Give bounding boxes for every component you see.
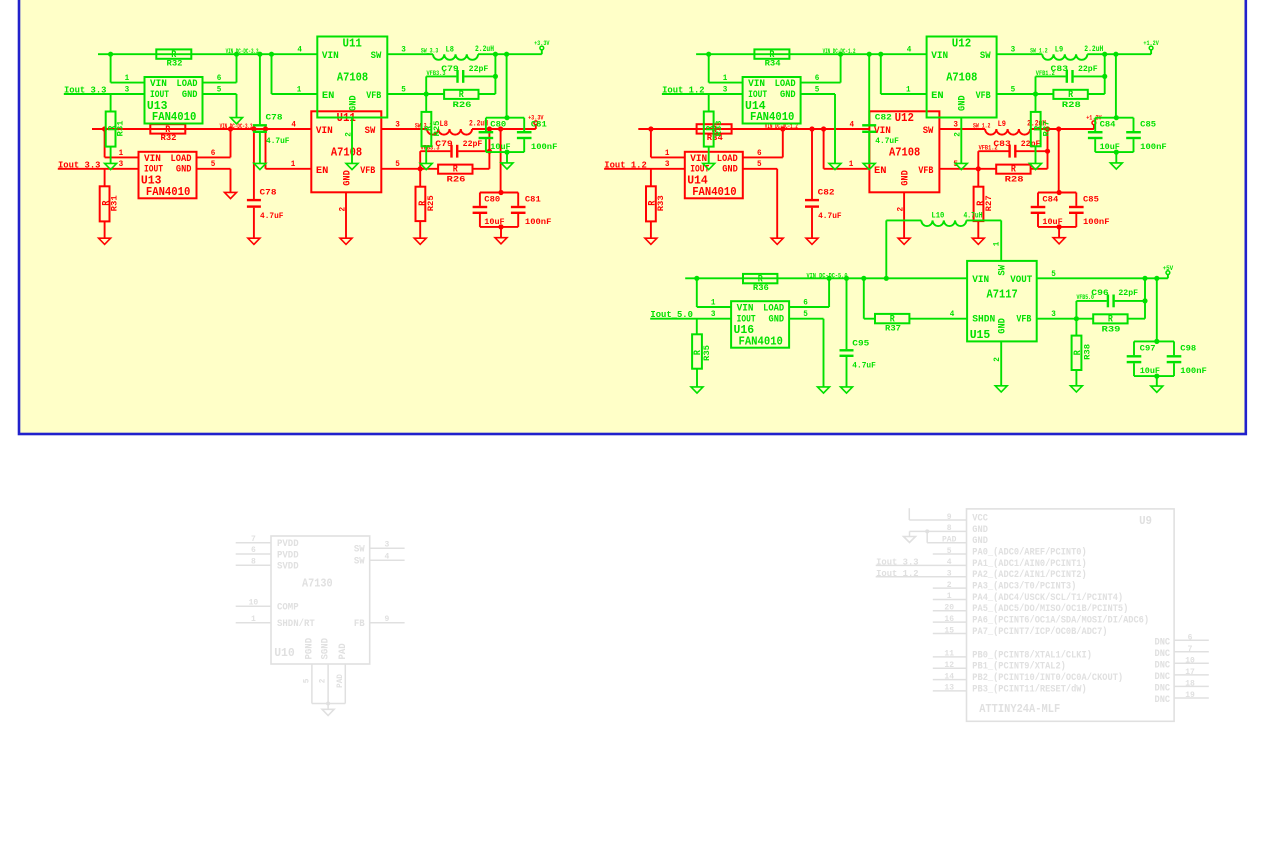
svg-text:3: 3 [1011,46,1016,55]
svg-text:PGND: PGND [305,638,316,660]
svg-text:Iout_3.3: Iout_3.3 [876,556,919,567]
svg-text:GND: GND [769,314,785,325]
svg-text:1: 1 [723,74,728,83]
svg-text:PA2_(ADC2/AIN1/PCINT2): PA2_(ADC2/AIN1/PCINT2) [972,569,1086,581]
svg-text:A7108: A7108 [331,146,362,159]
svg-text:L10: L10 [931,210,944,220]
svg-text:PA1_(ADC1/AIN0/PCINT1): PA1_(ADC1/AIN0/PCINT1) [972,558,1086,570]
svg-text:VCC: VCC [972,513,988,524]
svg-text:5: 5 [947,547,952,556]
svg-text:C98: C98 [1180,344,1196,354]
svg-text:R34: R34 [765,58,781,68]
svg-text:SW: SW [997,265,1008,276]
svg-text:R39: R39 [1102,324,1121,334]
svg-text:EN: EN [316,166,329,177]
svg-text:VFB3.3: VFB3.3 [427,70,446,77]
svg-text:5: 5 [302,679,311,684]
svg-text:PAD: PAD [942,536,957,545]
svg-text:3: 3 [119,160,124,169]
svg-text:C78: C78 [266,113,283,123]
svg-text:GND: GND [182,90,198,101]
svg-text:R38: R38 [1083,344,1093,360]
svg-text:PB2_(PCINT10/INT0/OC0A/CKOUT): PB2_(PCINT10/INT0/OC0A/CKOUT) [972,672,1123,684]
svg-text:C85: C85 [1083,194,1099,204]
svg-text:Iout_3.3: Iout_3.3 [58,159,101,170]
svg-text:VIN_DC-DC-3.3: VIN_DC-DC-3.3 [226,48,259,55]
svg-text:11: 11 [944,650,954,659]
svg-text:4: 4 [907,46,912,55]
svg-text:FAN4010: FAN4010 [692,186,736,199]
svg-text:R28: R28 [1062,100,1081,110]
svg-text:PA0_(ADC0/AREF/PCINT0): PA0_(ADC0/AREF/PCINT0) [972,546,1086,558]
svg-text:EN: EN [931,91,944,102]
svg-text:2: 2 [344,132,353,137]
svg-text:GND: GND [997,318,1008,334]
svg-text:4.7uF: 4.7uF [266,136,290,146]
svg-text:10uF: 10uF [1042,217,1062,227]
svg-text:VIN: VIN [316,126,333,137]
svg-text:5: 5 [1011,85,1016,94]
svg-text:R36: R36 [753,283,769,293]
svg-text:SW: SW [354,545,365,556]
svg-text:3: 3 [125,85,130,94]
svg-text:4: 4 [291,120,296,129]
svg-text:5: 5 [211,160,216,169]
svg-text:PA4_(ADC4/USCK/SCL/T1/PCINT4): PA4_(ADC4/USCK/SCL/T1/PCINT4) [972,592,1123,604]
svg-text:Iout_5.0: Iout_5.0 [650,309,693,320]
svg-text:6: 6 [1188,633,1193,642]
svg-text:C95: C95 [852,339,869,349]
svg-text:5: 5 [1051,270,1056,279]
svg-text:PA3_(ADC3/T0/PCINT3): PA3_(ADC3/T0/PCINT3) [972,581,1076,593]
svg-text:5: 5 [815,85,820,94]
svg-text:10uF: 10uF [1140,366,1160,376]
svg-text:LOAD: LOAD [775,79,796,90]
svg-text:U15: U15 [970,329,991,342]
svg-text:LOAD: LOAD [717,154,738,165]
svg-text:R27: R27 [984,195,994,211]
svg-text:SGND: SGND [321,638,332,660]
svg-text:6: 6 [815,74,820,83]
svg-text:4.7uH: 4.7uH [964,211,983,221]
svg-text:L9: L9 [1055,44,1063,54]
svg-text:R31: R31 [116,121,126,137]
svg-text:R27: R27 [1041,121,1051,137]
svg-text:U11: U11 [343,37,362,50]
svg-text:C81: C81 [531,120,547,130]
svg-text:100nF: 100nF [531,142,558,152]
svg-text:FAN4010: FAN4010 [750,111,794,124]
svg-text:15: 15 [944,626,954,635]
svg-text:2.2uH: 2.2uH [475,44,494,54]
svg-text:+1.2V: +1.2V [1143,40,1159,47]
svg-text:6: 6 [217,74,222,83]
svg-text:PA6_(PCINT6/OC1A/SDA/MOSI/DI/A: PA6_(PCINT6/OC1A/SDA/MOSI/DI/ADC6) [972,615,1149,627]
svg-text:C85: C85 [1140,120,1156,130]
svg-text:1: 1 [119,149,124,158]
svg-text:8: 8 [251,558,256,567]
svg-text:2: 2 [319,679,328,684]
svg-text:PVDD: PVDD [277,539,299,550]
svg-text:A7117: A7117 [987,289,1018,302]
svg-text:GND: GND [176,165,192,176]
svg-text:5: 5 [395,160,400,169]
svg-text:3: 3 [953,120,958,129]
svg-text:U12: U12 [895,112,914,125]
svg-text:1: 1 [906,85,911,94]
svg-text:22pF: 22pF [1078,64,1098,74]
svg-text:SHDN/RT: SHDN/RT [277,618,315,630]
svg-text:+3.3V: +3.3V [534,40,550,47]
svg-text:6: 6 [251,546,256,555]
svg-text:3: 3 [395,120,400,129]
svg-text:1: 1 [665,149,670,158]
svg-text:VIN: VIN [931,51,948,62]
svg-text:Iout_3.3: Iout_3.3 [64,85,107,96]
svg-text:7: 7 [251,535,256,544]
svg-text:12: 12 [944,661,954,670]
svg-text:LOAD: LOAD [177,79,198,90]
svg-text:2.2uH: 2.2uH [1084,44,1103,54]
svg-text:100nF: 100nF [1140,142,1167,152]
svg-text:VIN: VIN [737,304,754,315]
svg-text:R32: R32 [161,133,177,143]
svg-text:EN: EN [322,91,335,102]
svg-text:VFB1.2: VFB1.2 [1036,70,1055,77]
svg-text:FAN4010: FAN4010 [739,335,783,348]
svg-text:VFB: VFB [976,91,991,102]
svg-text:100nF: 100nF [525,217,552,227]
svg-text:GND: GND [722,165,738,176]
svg-text:10uF: 10uF [490,142,510,152]
svg-text:3: 3 [401,46,406,55]
svg-text:VFB1.2: VFB1.2 [979,145,998,152]
svg-text:VIN: VIN [748,79,765,90]
svg-text:DNC: DNC [1155,649,1171,660]
svg-text:PB0_(PCINT8/XTAL1/CLKI): PB0_(PCINT8/XTAL1/CLKI) [972,649,1092,661]
svg-text:18: 18 [1185,680,1195,689]
svg-text:SVDD: SVDD [277,562,299,573]
svg-text:3: 3 [665,160,670,169]
svg-text:5: 5 [401,85,406,94]
svg-text:ATTINY24A-MLF: ATTINY24A-MLF [979,703,1060,716]
svg-text:17: 17 [1185,668,1195,677]
svg-text:FAN4010: FAN4010 [152,111,196,124]
svg-text:U11: U11 [337,112,356,125]
svg-text:4: 4 [850,120,855,129]
svg-text:14: 14 [944,672,954,681]
svg-text:R32: R32 [167,58,183,68]
svg-text:4.7uF: 4.7uF [260,211,284,221]
svg-text:22pF: 22pF [1118,288,1138,298]
svg-text:C82: C82 [818,187,835,197]
svg-text:SW_3.3: SW_3.3 [421,48,439,55]
svg-text:C80: C80 [484,194,500,204]
svg-text:20: 20 [944,604,954,613]
svg-text:COMP: COMP [277,603,299,614]
svg-text:GND: GND [958,95,969,111]
svg-text:C80: C80 [490,120,506,130]
svg-text:R33: R33 [656,195,666,211]
svg-text:VIN: VIN [150,79,167,90]
svg-text:Iout_1.2: Iout_1.2 [662,85,705,96]
svg-text:3: 3 [947,570,952,579]
svg-text:3: 3 [1051,310,1056,319]
svg-text:1: 1 [711,298,716,307]
svg-text:A7108: A7108 [889,146,920,159]
svg-text:DNC: DNC [1155,684,1171,695]
svg-text:PVDD: PVDD [277,550,299,561]
svg-text:VFB: VFB [366,91,381,102]
svg-text:R33: R33 [714,121,724,137]
svg-text:4: 4 [384,553,389,562]
svg-text:Iout_1.2: Iout_1.2 [876,568,919,579]
svg-text:+5V: +5V [1163,265,1174,272]
svg-text:R37: R37 [885,323,901,333]
svg-text:1: 1 [947,592,952,601]
svg-text:DNC: DNC [1155,695,1171,706]
svg-text:PAD: PAD [336,674,345,688]
svg-text:4.7uF: 4.7uF [875,136,899,146]
svg-text:GND: GND [342,170,353,186]
svg-text:R28: R28 [1005,175,1024,185]
svg-text:3: 3 [384,541,389,550]
svg-text:DNC: DNC [1155,672,1171,683]
svg-text:10: 10 [1185,657,1195,666]
svg-text:SW: SW [365,126,376,137]
svg-text:GND: GND [972,525,988,536]
svg-text:GND: GND [348,95,359,111]
svg-text:DNC: DNC [1155,661,1171,672]
svg-text:PA5_(ADC5/DO/MISO/OC1B/PCINT5): PA5_(ADC5/DO/MISO/OC1B/PCINT5) [972,603,1128,615]
svg-text:22pF: 22pF [469,64,489,74]
svg-text:L9: L9 [998,119,1006,129]
svg-text:Iout_1.2: Iout_1.2 [604,159,647,170]
svg-text:2: 2 [993,357,1002,362]
svg-text:7: 7 [1188,645,1193,654]
svg-text:5: 5 [217,85,222,94]
svg-text:SW_1.2: SW_1.2 [973,122,991,129]
svg-text:GND: GND [780,90,796,101]
svg-text:R31: R31 [110,195,120,211]
svg-text:8: 8 [947,524,952,533]
svg-text:4.7uF: 4.7uF [852,361,876,371]
svg-text:SW: SW [923,126,934,137]
svg-text:VOUT: VOUT [1010,275,1032,286]
svg-text:DNC: DNC [1155,637,1171,648]
svg-text:U10: U10 [274,647,295,660]
svg-text:PA7_(PCINT7/ICP/OC0B/ADC7): PA7_(PCINT7/ICP/OC0B/ADC7) [972,626,1107,638]
svg-text:FAN4010: FAN4010 [146,186,190,199]
svg-text:1: 1 [291,160,296,169]
svg-text:1: 1 [849,160,854,169]
svg-text:VFB: VFB [1016,314,1031,325]
svg-text:VIN: VIN [322,51,339,62]
svg-text:GND: GND [972,536,988,547]
svg-text:SW_1.2: SW_1.2 [1030,48,1048,55]
svg-text:10: 10 [249,599,259,608]
svg-text:4.7uF: 4.7uF [818,211,842,221]
svg-text:2: 2 [896,207,905,212]
svg-text:L8: L8 [446,44,454,54]
svg-text:SW: SW [371,51,382,62]
svg-text:PAD: PAD [338,643,349,659]
svg-text:19: 19 [1185,691,1195,700]
svg-text:SW: SW [354,557,365,568]
svg-text:3: 3 [723,85,728,94]
svg-text:3: 3 [711,310,716,319]
svg-text:R25: R25 [432,121,442,137]
svg-text:R26: R26 [453,100,472,110]
svg-text:6: 6 [757,149,762,158]
svg-text:4: 4 [297,46,302,55]
svg-text:SHDN: SHDN [972,314,995,325]
svg-text:C97: C97 [1140,344,1156,354]
svg-text:U12: U12 [952,37,971,50]
svg-text:6: 6 [211,149,216,158]
svg-text:9: 9 [384,615,389,624]
svg-text:R26: R26 [447,175,466,185]
svg-text:6: 6 [803,298,808,307]
svg-text:2: 2 [338,207,347,212]
svg-text:EN: EN [874,166,887,177]
svg-text:2: 2 [947,581,952,590]
svg-text:5: 5 [803,310,808,319]
svg-text:U9: U9 [1139,515,1152,528]
svg-text:VIN_DC-DC-1.2: VIN_DC-DC-1.2 [823,48,856,55]
svg-text:22pF: 22pF [463,139,483,149]
svg-text:9: 9 [947,513,952,522]
svg-text:SW: SW [980,51,991,62]
svg-text:100nF: 100nF [1180,366,1207,376]
svg-text:A7108: A7108 [337,72,368,85]
svg-text:C81: C81 [525,194,541,204]
svg-text:1: 1 [251,615,256,624]
svg-text:1: 1 [993,241,1002,246]
svg-text:13: 13 [944,684,954,693]
svg-text:R25: R25 [426,195,436,211]
svg-text:4: 4 [950,310,955,319]
svg-text:LOAD: LOAD [763,304,784,315]
svg-text:1: 1 [125,74,130,83]
svg-text:PB3_(PCINT11/RESET/dW): PB3_(PCINT11/RESET/dW) [972,683,1086,695]
svg-text:2: 2 [954,132,963,137]
svg-text:GND: GND [901,170,912,186]
svg-text:4: 4 [947,558,952,567]
svg-text:16: 16 [944,615,954,624]
svg-text:VFB: VFB [918,166,933,177]
svg-text:A7130: A7130 [302,578,333,591]
svg-text:FB: FB [354,619,365,630]
svg-text:C84: C84 [1042,194,1058,204]
svg-text:10uF: 10uF [1100,142,1120,152]
svg-text:VIN: VIN [144,154,161,165]
svg-text:10uF: 10uF [484,217,504,227]
svg-text:VIN: VIN [972,275,989,286]
svg-text:5: 5 [757,160,762,169]
svg-text:VIN_DC-DC-5.0: VIN_DC-DC-5.0 [807,272,848,279]
svg-text:R35: R35 [702,345,712,361]
svg-text:C78: C78 [260,187,277,197]
svg-text:1: 1 [297,85,302,94]
svg-text:C82: C82 [875,113,892,123]
svg-text:PB1_(PCINT9/XTAL2): PB1_(PCINT9/XTAL2) [972,661,1066,673]
svg-text:LOAD: LOAD [171,154,192,165]
svg-text:VFB5.0: VFB5.0 [1076,294,1094,301]
svg-text:VFB: VFB [360,166,375,177]
svg-text:100nF: 100nF [1083,217,1110,227]
svg-text:A7108: A7108 [946,72,977,85]
svg-text:C84: C84 [1100,120,1116,130]
